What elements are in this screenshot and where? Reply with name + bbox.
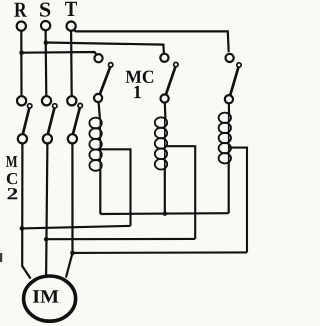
wire T vertical to MC2 pole 3 — [70, 31, 73, 97]
contact MC2 pole 2 — [42, 96, 57, 143]
wire motor lead T — [66, 143, 73, 278]
node S branch junction — [44, 40, 49, 45]
contact MC1 pole 2 — [160, 54, 178, 103]
terminal label T — [65, 2, 77, 16]
label MC2 — [6, 156, 17, 199]
wire star point bus — [100, 212, 228, 215]
label MC1 — [126, 71, 154, 99]
wire R branch to MC1 pole 1 — [22, 52, 97, 55]
wire tap line phase R — [22, 226, 131, 229]
wire motor lead R — [22, 143, 30, 279]
reactor coil 2 — [155, 117, 167, 169]
wire reactor 1 spine — [99, 118, 101, 171]
wire reactor 2 spine — [164, 118, 166, 170]
wire R vertical to MC2 pole 1 — [20, 31, 22, 97]
contact MC1 pole 1 — [94, 54, 113, 102]
wire MC1 pole 2 to reactor 2 — [164, 103, 167, 119]
wire reactor 1 tap — [101, 149, 131, 226]
node junction T tap line — [70, 251, 75, 256]
contact MC2 pole 3 — [67, 96, 82, 143]
wire reactor 2 bottom lead — [164, 169, 166, 214]
terminal R — [17, 22, 26, 31]
label IM — [33, 290, 59, 302]
reactor coil 3 — [219, 113, 231, 164]
wire S vertical to MC2 pole 2 — [44, 30, 47, 96]
contact MC2 pole 1 — [17, 96, 32, 143]
wire reactor 3 tap — [230, 148, 248, 253]
node junction R tap line — [20, 226, 25, 231]
reactor coil 1 — [89, 118, 101, 171]
terminal label R — [14, 3, 26, 17]
contact MC1 pole 3 — [225, 54, 241, 103]
scan artifact left edge — [0, 253, 2, 262]
node star junction reactor 2 — [163, 211, 168, 216]
node junction S tap line — [44, 237, 49, 242]
terminal S — [41, 21, 50, 30]
node R branch junction — [19, 50, 24, 55]
terminal T — [67, 22, 76, 31]
wire tap line phase S — [46, 238, 195, 240]
motor IM — [24, 276, 76, 321]
wire reactor 2 tap — [166, 146, 195, 239]
wire reactor 3 spine — [228, 113, 230, 163]
wire motor lead S — [46, 143, 47, 277]
wire MC1 pole 3 to reactor 3 — [228, 103, 230, 114]
wire S branch to MC1 pole 2 — [46, 43, 164, 54]
wire tap line phase T — [73, 251, 248, 254]
wire MC1 pole 1 to reactor 1 — [99, 102, 100, 119]
wire reactor 3 bottom lead — [228, 163, 230, 214]
wire reactor 1 bottom lead — [99, 170, 101, 215]
wire T branch to MC1 pole 3 — [73, 30, 228, 52]
terminal label S — [40, 3, 50, 17]
